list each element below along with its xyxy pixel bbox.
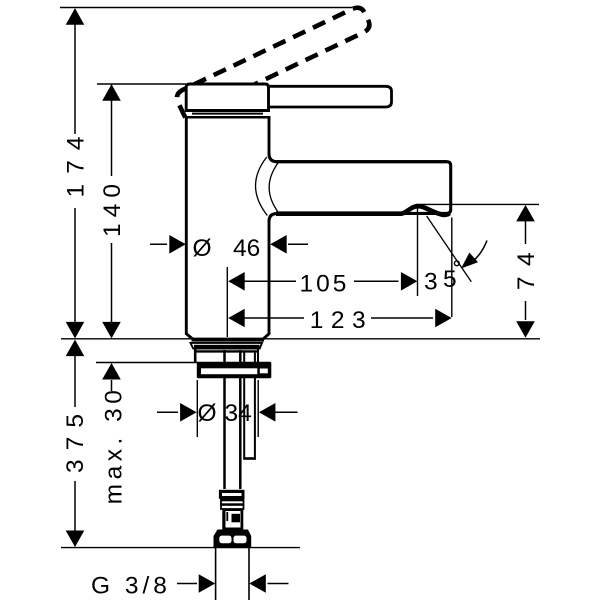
mounting flange nut <box>197 362 271 378</box>
svg-text:174: 174 <box>63 127 90 198</box>
svg-text:46: 46 <box>233 235 260 262</box>
svg-text:5: 5 <box>443 266 457 293</box>
dimension 74 <box>513 205 540 338</box>
dashed lever (raised position) <box>174 5 372 118</box>
dimension 174 <box>63 8 90 338</box>
connector threaded neck <box>221 499 244 509</box>
svg-text:74: 74 <box>513 242 540 290</box>
cap ring <box>192 113 263 115</box>
flared connector nut <box>214 530 252 548</box>
dimension G 3/8 <box>91 573 289 600</box>
svg-text:G 3/8: G 3/8 <box>91 573 171 600</box>
svg-text:34: 34 <box>225 400 252 427</box>
spout-body fillet outer arc <box>256 157 268 216</box>
extension line aerator axis <box>417 209 419 297</box>
extension line aerator level <box>416 203 539 205</box>
spout top edge <box>276 160 447 163</box>
connector valve body <box>222 509 243 531</box>
body top edge <box>185 116 270 119</box>
svg-text:Ø: Ø <box>198 400 217 427</box>
extension line faucet axis <box>226 267 228 337</box>
body chamfer right <box>263 334 270 340</box>
svg-text:123: 123 <box>310 307 373 334</box>
spout <box>269 154 451 222</box>
extension line flange bottom (max.30) <box>96 362 198 364</box>
extension lines shank diameter <box>196 380 198 437</box>
dimension 123 <box>228 307 452 334</box>
faucet body <box>186 117 269 339</box>
hose end reference line <box>61 547 300 549</box>
deck line <box>61 338 540 340</box>
body chamfer left <box>186 334 193 340</box>
dimension Ø 46 <box>150 235 308 262</box>
body right edge lower <box>268 221 271 335</box>
threaded shank <box>194 349 197 362</box>
dimension Ø 34 <box>157 400 298 427</box>
body right edge upper <box>268 116 271 154</box>
dimension 375 <box>62 340 89 547</box>
svg-text:Ø: Ø <box>193 235 212 262</box>
body bottom edge <box>192 338 265 342</box>
G3/8 nipple <box>215 548 217 600</box>
supply hose walls <box>223 350 226 489</box>
dimension 140 <box>99 84 126 338</box>
second supply pipe <box>244 351 255 457</box>
dimension max. 30 <box>101 363 128 504</box>
angle 35 degree line <box>427 216 472 282</box>
svg-text:max. 30: max. 30 <box>101 386 128 505</box>
angle arc with arrow <box>472 241 488 263</box>
svg-text:375: 375 <box>62 405 89 473</box>
hose connector collar <box>219 490 245 499</box>
dimension 105 <box>228 271 417 298</box>
spout-body fillet inner arc <box>269 163 278 211</box>
spout bottom edge with aerator notch <box>276 206 450 215</box>
escutcheon base <box>191 343 263 349</box>
body left edge <box>185 116 188 335</box>
svg-text:105: 105 <box>300 271 350 298</box>
extension line top (lever tip level) <box>60 7 352 9</box>
extension line cap top level <box>97 83 186 85</box>
lever handle <box>268 86 392 107</box>
extension line spout tip <box>451 218 453 318</box>
svg-text:3: 3 <box>424 269 438 296</box>
cartridge cap <box>186 84 268 111</box>
svg-text:140: 140 <box>99 178 126 237</box>
